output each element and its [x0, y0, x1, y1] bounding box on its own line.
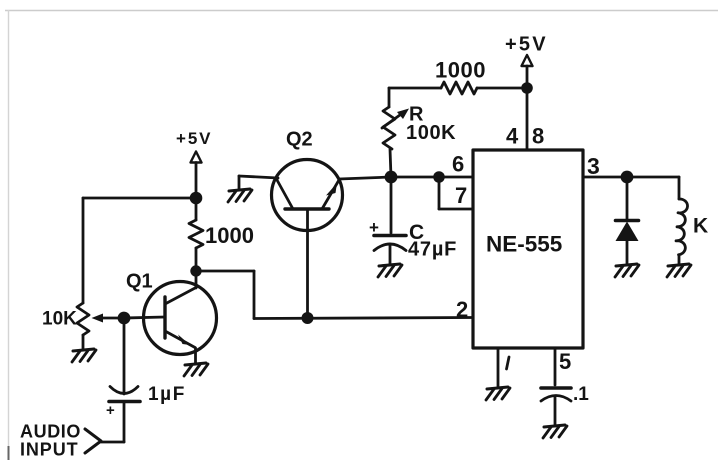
- wire diode to ground: [626, 241, 629, 265]
- ground under 10K: [72, 349, 96, 362]
- ground at Q2: [228, 189, 252, 202]
- wire pin 7 horizontal: [439, 208, 473, 211]
- wire pin 6: [391, 176, 473, 179]
- wire resistor to supply node: [477, 87, 527, 90]
- wire +5V down to node: [195, 163, 198, 199]
- svg-text:+: +: [369, 218, 379, 237]
- capacitor 1uF straight plate: [109, 400, 140, 404]
- diode CR1 wire from node: [626, 177, 629, 219]
- node junction dot pin3 net: [621, 171, 634, 184]
- transistor Q1 circle: [144, 282, 217, 355]
- wire Q2 left lead to ground stub: [239, 176, 278, 178]
- pot R arrow diagonal: [382, 112, 404, 128]
- node junction dot Q2 emitter net: [302, 312, 314, 324]
- svg-text:NE-555: NE-555: [486, 232, 562, 257]
- svg-text:.1: .1: [573, 384, 589, 405]
- svg-text:5: 5: [559, 349, 571, 374]
- wire +5V right down: [526, 66, 529, 88]
- svg-text:10K: 10K: [42, 309, 77, 330]
- node junction dot pin6 net left: [385, 171, 398, 184]
- capacitor 1uF curved plate: [110, 387, 138, 394]
- svg-text:47µF: 47µF: [408, 239, 457, 261]
- faint page rule horizontal: [5, 10, 718, 12]
- wire node left horizontal: [83, 197, 196, 200]
- capacitor 47uF straight plate: [374, 234, 406, 238]
- svg-text:AUDIO: AUDIO: [20, 422, 81, 442]
- node junction dot left supply: [190, 192, 203, 205]
- resistor 1000 (collector load) zigzag: [189, 220, 203, 248]
- svg-text:6: 6: [452, 152, 464, 177]
- faint page rule vertical: [8, 10, 10, 446]
- wire 10K to ground: [82, 335, 85, 350]
- svg-text:4: 4: [506, 124, 519, 149]
- svg-text:K: K: [693, 215, 708, 238]
- wire ground stub down: [238, 176, 241, 189]
- svg-text:2: 2: [456, 297, 468, 322]
- wire 1uF down: [123, 402, 126, 442]
- transistor Q2 left lead: [277, 180, 293, 209]
- svg-text:7: 7: [455, 183, 467, 208]
- ground under 47uF: [378, 264, 402, 277]
- transistor Q1 emitter arrowhead: [178, 335, 190, 346]
- ground under K: [667, 264, 691, 277]
- resistor 10K potentiometer zigzag: [77, 303, 89, 335]
- diode CR1 triangle: [616, 222, 639, 242]
- wire left vertical down to 10K: [82, 198, 85, 303]
- wire Q1 emitter to ground: [194, 348, 197, 364]
- svg-text:+: +: [106, 402, 115, 419]
- wire coil to ground: [678, 255, 681, 265]
- pin 1 label tick: [507, 357, 510, 369]
- capacitor C2 47uF: wire down: [390, 177, 393, 233]
- relay coil K loops: [676, 199, 688, 255]
- svg-text:1µF: 1µF: [148, 384, 186, 405]
- svg-text:INPUT: INPUT: [20, 440, 79, 460]
- op-amp/timer U1 NE-555 box: [473, 150, 583, 348]
- pin 3 wire: [583, 176, 679, 179]
- transistor Q2 base lead down: [306, 209, 309, 318]
- wire wiper to node: [100, 317, 118, 320]
- svg-text:+5V: +5V: [505, 34, 548, 56]
- wire corner down: [253, 271, 256, 319]
- wire corner down to pot R: [388, 88, 391, 107]
- svg-text:+5V: +5V: [176, 129, 212, 148]
- capacitor 47uF curved plate: [374, 244, 406, 251]
- wire C3 to ground: [554, 396, 557, 426]
- transistor Q2 circle: [272, 160, 343, 231]
- node junction dot base of Q1: [118, 312, 131, 325]
- wire pot to node: [390, 149, 391, 177]
- capacitor C3 0.1 curved plate: [541, 396, 571, 402]
- resistor 1000 top: left wire: [389, 87, 441, 90]
- transistor Q1 collector lead: [165, 288, 196, 305]
- page mark bottom left: [8, 446, 10, 460]
- ground under C3: [543, 425, 567, 438]
- svg-text:3: 3: [587, 153, 600, 179]
- wire collector node right: [196, 270, 254, 273]
- svg-text:1000: 1000: [435, 58, 486, 83]
- wire 47uF to ground: [389, 245, 392, 265]
- potentiometer R 100K zigzag: [383, 107, 395, 149]
- wire to pin 2 of NE-555: [254, 318, 473, 319]
- relay coil K: wire corner down: [678, 177, 681, 199]
- ground under diode: [615, 264, 639, 277]
- svg-text:Q2: Q2: [286, 129, 313, 151]
- wire node to Q1 base: [124, 317, 165, 318]
- wire resistor to collector node: [195, 248, 198, 271]
- 10K wiper arrow: [92, 314, 104, 323]
- node junction dot pin6/7: [433, 171, 445, 183]
- svg-text:Q1: Q1: [126, 271, 153, 293]
- transistor Q2 base bar: [285, 207, 329, 210]
- svg-text:100K: 100K: [406, 122, 456, 144]
- ground under pin 1: [486, 387, 510, 400]
- transistor Q1 emitter lead: [165, 331, 195, 348]
- audio input arrow chevron: [85, 429, 101, 453]
- wire Q1 collector up: [195, 271, 198, 288]
- transistor Q1 base bar: [163, 297, 166, 338]
- capacitor C3 0.1 straight plate: [541, 386, 571, 390]
- diode CR1 cathode bar: [616, 219, 639, 223]
- wire supply node down to resistor: [195, 198, 198, 220]
- svg-text:1000: 1000: [205, 223, 254, 248]
- node junction dot Q1 collector: [190, 265, 201, 276]
- resistor 1000 top zigzag: [441, 82, 477, 94]
- node junction dot right supply: [521, 82, 533, 94]
- transistor Q2 arrowhead: [326, 183, 337, 196]
- +5V supply right: arrow: [522, 55, 533, 66]
- svg-text:8: 8: [532, 124, 544, 149]
- capacitor C1 1uF: wire from node down: [123, 318, 126, 394]
- wire input horizontal: [101, 441, 124, 444]
- pin 5 wire: [554, 348, 557, 385]
- pin 1 wire: [497, 348, 500, 387]
- wire pin 7 vertical: [438, 177, 441, 209]
- +5V supply left: arrow: [191, 152, 202, 163]
- ground under Q1 emitter: [184, 363, 208, 376]
- wire Q2 collector to junction: [339, 177, 391, 179]
- pot R arrowhead: [397, 109, 409, 120]
- wire supply node to pins 4,8: [526, 88, 529, 149]
- transistor Q2 right lead with arrow: [322, 180, 339, 209]
